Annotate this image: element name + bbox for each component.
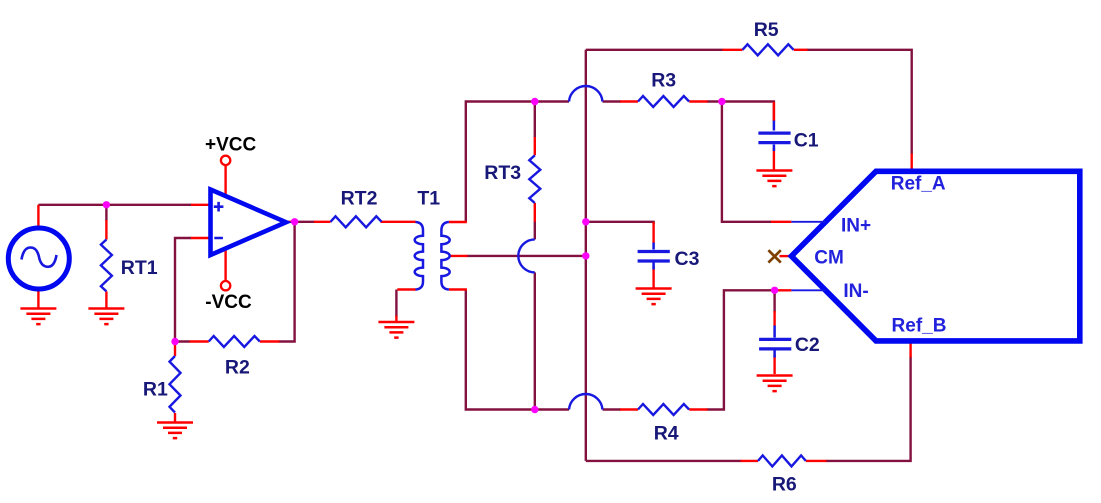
svg-text:RT3: RT3 (484, 162, 521, 184)
svg-text:T1: T1 (417, 188, 440, 210)
svg-text:R3: R3 (651, 70, 676, 92)
svg-text:CM: CM (814, 248, 844, 269)
svg-text:IN-: IN- (843, 281, 868, 302)
svg-text:RT1: RT1 (121, 257, 158, 279)
svg-text:IN+: IN+ (841, 216, 871, 237)
svg-text:C2: C2 (795, 334, 820, 356)
svg-text:R1: R1 (143, 379, 168, 401)
svg-text:Ref_A: Ref_A (891, 174, 946, 195)
svg-text:R4: R4 (654, 423, 679, 445)
svg-text:Ref_B: Ref_B (892, 316, 947, 337)
svg-text:RT2: RT2 (341, 188, 378, 210)
svg-text:+VCC: +VCC (205, 135, 256, 156)
svg-text:R2: R2 (225, 357, 250, 379)
svg-text:R6: R6 (772, 474, 797, 496)
svg-text:-VCC: -VCC (205, 292, 252, 313)
svg-text:R5: R5 (754, 19, 779, 41)
svg-text:C3: C3 (675, 248, 700, 270)
svg-text:C1: C1 (794, 130, 819, 152)
